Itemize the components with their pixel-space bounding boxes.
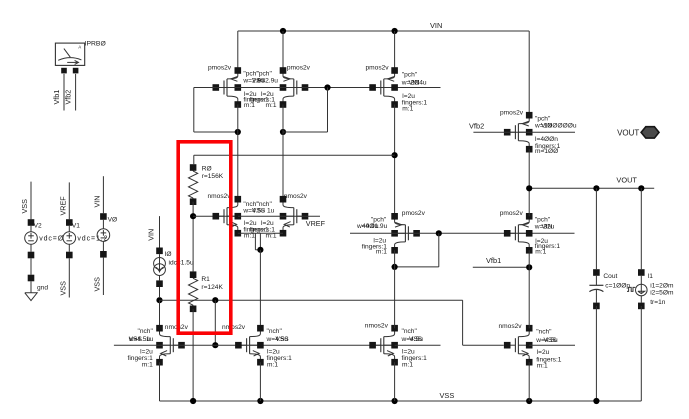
junction bias riser	[212, 297, 218, 345]
svg-text:VSS: VSS	[544, 337, 558, 344]
svg-text:VOUT: VOUT	[617, 128, 639, 137]
svg-text:VSS: VSS	[129, 336, 143, 343]
svg-text:VIN: VIN	[542, 223, 553, 230]
svg-text:R1: R1	[201, 276, 210, 283]
net stub VREF to N2 gate	[238, 216, 326, 228]
svg-text:"nch": "nch"	[536, 329, 552, 336]
svg-text:tr=1n: tr=1n	[650, 299, 666, 306]
net bias line to mirrors	[160, 300, 504, 345]
pmos2v P5 pass device	[504, 112, 533, 153]
pmos2v P1 (mirror input)	[213, 67, 242, 108]
svg-text:V1: V1	[72, 223, 80, 230]
junction VSS/Cout	[593, 398, 599, 404]
junction R0 line / P3 drain	[392, 152, 398, 158]
wire P2 drain to gate bus	[283, 88, 328, 133]
junction VOUT/P5	[526, 185, 532, 191]
svg-text:VSS: VSS	[409, 336, 423, 343]
svg-text:nmos2v: nmos2v	[284, 193, 308, 200]
svg-text:40.9u: 40.9u	[362, 223, 379, 230]
svg-text:Vfb1: Vfb1	[486, 256, 501, 265]
wire R1 bottom to VSS rail	[192, 309, 194, 401]
svg-text:i1=2Øm: i1=2Øm	[650, 282, 674, 289]
wire P3 drain column	[394, 105, 396, 217]
svg-text:Vfb2: Vfb2	[469, 122, 484, 131]
nmos2v N5 (2nd stage sink)	[369, 325, 398, 366]
svg-text:VSS: VSS	[20, 199, 29, 214]
svg-text:gnd: gnd	[37, 284, 48, 291]
wire N3 source to VSS	[159, 362, 161, 401]
svg-text:V2: V2	[34, 223, 42, 230]
svg-text:m:1: m:1	[402, 106, 413, 113]
svg-text:nmos2v: nmos2v	[499, 323, 523, 330]
nmos2v N3 (bias mirror, diode)	[156, 325, 185, 366]
svg-text:m:1: m:1	[244, 102, 255, 109]
net VIN top rail	[238, 21, 529, 31]
wire N6 bulk stub	[529, 344, 575, 346]
wire R0 bottom to tap	[192, 202, 194, 272]
svg-text:A: A	[78, 45, 81, 50]
svg-text:"nch": "nch"	[267, 328, 283, 335]
junction gate bus riser	[324, 84, 330, 90]
junction Vfb1 node	[526, 250, 532, 328]
junction P4 drain node	[392, 250, 398, 328]
net stub VIN to I0	[147, 216, 160, 247]
svg-text:m:1: m:1	[142, 361, 153, 368]
red highlight rectangle	[178, 142, 231, 333]
labels N3	[128, 328, 154, 369]
svg-text:VSS: VSS	[276, 336, 290, 343]
wire R0 to P3 drain node	[194, 155, 395, 164]
svg-text:VREF: VREF	[59, 196, 68, 216]
wire I1 to VSS	[640, 306, 642, 401]
labels P6	[534, 217, 561, 256]
svg-text:pmos2v: pmos2v	[366, 64, 390, 71]
svg-text:nmos2v: nmos2v	[222, 324, 246, 331]
junction diff tail	[257, 247, 263, 329]
wire 2nd stage gate line	[350, 232, 575, 234]
wire N3 bulk stub	[114, 344, 182, 346]
svg-text:c=1ØØp: c=1ØØp	[605, 283, 630, 290]
labels N6	[535, 329, 562, 370]
svg-text:l=4ØØn: l=4ØØn	[535, 136, 558, 143]
nmos2v N2 (diff pair right)	[280, 196, 309, 237]
wire VIN to P5 source	[528, 31, 530, 115]
svg-text:"pch": "pch"	[535, 115, 551, 122]
gate bus left pmos pair	[194, 87, 441, 89]
svg-text:nmos2v: nmos2v	[365, 323, 389, 330]
P1 diode loop wire	[194, 88, 238, 133]
junction I0/N3 bias node	[156, 297, 162, 328]
svg-text:1u: 1u	[267, 207, 275, 214]
junction VIN/P3	[392, 28, 398, 71]
wire Cout to VSS	[595, 306, 597, 401]
svg-text:pmos2v: pmos2v	[402, 210, 426, 217]
svg-text:m:1: m:1	[537, 363, 548, 370]
svg-text:pmos2v: pmos2v	[500, 210, 524, 217]
current source I0 idc=1.5u	[154, 248, 166, 298]
svg-text:"nch": "nch"	[402, 328, 418, 335]
svg-text:1u: 1u	[146, 336, 154, 343]
resistor R0 r=156K	[189, 164, 198, 205]
wire P5 drain to VOUT rail	[528, 149, 530, 216]
current source I1 pulse	[627, 269, 647, 309]
svg-text:w=2.9u: w=2.9u	[256, 78, 279, 85]
wire VIN to P1 source	[237, 31, 239, 71]
svg-text:VIN: VIN	[93, 196, 102, 208]
svg-text:IPRBØ: IPRBØ	[85, 41, 107, 48]
labels N5	[401, 328, 428, 369]
nmos2v N4 (diff tail)	[235, 325, 264, 366]
svg-text:vdc=Ø: vdc=Ø	[39, 235, 64, 242]
svg-text:m:1: m:1	[402, 361, 413, 368]
nmos2v N1 (diff pair left)	[213, 196, 242, 237]
svg-text:VIN: VIN	[147, 229, 156, 241]
junction VSS/R1	[190, 398, 196, 404]
svg-text:Vfb1: Vfb1	[52, 90, 61, 105]
labels P1/P2 overlapped	[242, 71, 278, 109]
junction P1 drain node	[235, 105, 241, 200]
labels P5	[534, 115, 577, 155]
pmos2v P6 (2nd stage out)	[504, 213, 533, 254]
svg-text:m:1: m:1	[267, 361, 278, 368]
labels N1/N2 overlapped	[242, 201, 276, 240]
svg-text:VSS: VSS	[440, 391, 455, 400]
ground gnd	[25, 275, 49, 301]
capacitor Cout c=100p	[589, 269, 603, 309]
pin VOUT	[617, 127, 659, 138]
junction VSS/N5	[392, 362, 398, 404]
svg-text:VIN: VIN	[430, 21, 442, 30]
svg-text:VSS: VSS	[252, 207, 266, 214]
junction VOUT/Cout	[593, 185, 599, 269]
svg-text:"nch": "nch"	[137, 328, 153, 335]
junction feedback tap node	[190, 213, 238, 219]
wire N5 bulk stub	[395, 344, 441, 346]
svg-text:IØ: IØ	[165, 251, 172, 258]
junction bottom gate bus	[212, 342, 218, 348]
junction VIN/P2	[280, 28, 286, 71]
resistor R1 r=124K	[189, 271, 198, 312]
labels P4	[356, 217, 388, 256]
svg-text:"pch": "pch"	[402, 71, 418, 78]
svg-text:Cout: Cout	[603, 273, 617, 280]
svg-text:nmos2v: nmos2v	[208, 193, 232, 200]
svg-text:i2=5Øm: i2=5Øm	[650, 289, 674, 296]
current probe IPRB0	[55, 41, 106, 111]
svg-text:VSS: VSS	[59, 281, 68, 296]
wire diff pair sources	[238, 233, 283, 250]
net VOUT rail	[529, 176, 654, 189]
labels N4	[266, 328, 293, 369]
net stub Vfb2	[469, 122, 575, 133]
svg-text:Vfb2: Vfb2	[63, 90, 72, 105]
svg-text:m:1: m:1	[376, 249, 387, 256]
junction VSS/N4	[257, 362, 263, 404]
svg-text:r=156K: r=156K	[202, 173, 224, 180]
svg-text:idc=1.5u: idc=1.5u	[169, 260, 194, 267]
pmos2v P3	[369, 67, 398, 108]
svg-text:pmos2v: pmos2v	[500, 109, 524, 116]
svg-text:m:1: m:1	[535, 249, 546, 256]
svg-text:VOUT: VOUT	[616, 176, 637, 185]
svg-text:RØ: RØ	[202, 165, 212, 172]
net VSS bottom rail	[160, 391, 642, 401]
svg-text:I1: I1	[647, 273, 653, 280]
net stub Vfb1	[473, 256, 529, 267]
nmos2v N6 (output sink)	[504, 325, 533, 366]
junction VOUT/I1	[638, 185, 644, 269]
svg-text:pmos2v: pmos2v	[208, 64, 232, 71]
labels P3	[401, 71, 428, 112]
junction P4 diode	[395, 230, 442, 267]
svg-text:VSS: VSS	[93, 277, 102, 292]
pmos2v P2	[280, 67, 309, 108]
svg-text:VREF: VREF	[306, 219, 326, 228]
svg-text:m:1: m:1	[266, 102, 277, 109]
svg-text:VIN: VIN	[409, 80, 420, 87]
svg-text:VIN: VIN	[541, 122, 552, 129]
junction VSS/N6	[526, 362, 532, 404]
svg-text:m=1ØØ: m=1ØØ	[535, 148, 558, 155]
voltage source V0	[97, 176, 110, 295]
voltage source V2 vdc=0	[25, 182, 38, 275]
svg-text:VØ: VØ	[108, 217, 118, 224]
svg-text:r=124K: r=124K	[201, 284, 223, 291]
svg-text:l=2u: l=2u	[537, 349, 550, 356]
junction P2 drain node	[280, 105, 286, 200]
wire bottom gate bus	[182, 344, 395, 346]
svg-text:pmos2v: pmos2v	[287, 64, 311, 71]
voltage source V1 vdc=1.2	[63, 182, 76, 297]
pmos2v P4 (2nd stage diode)	[391, 213, 420, 254]
